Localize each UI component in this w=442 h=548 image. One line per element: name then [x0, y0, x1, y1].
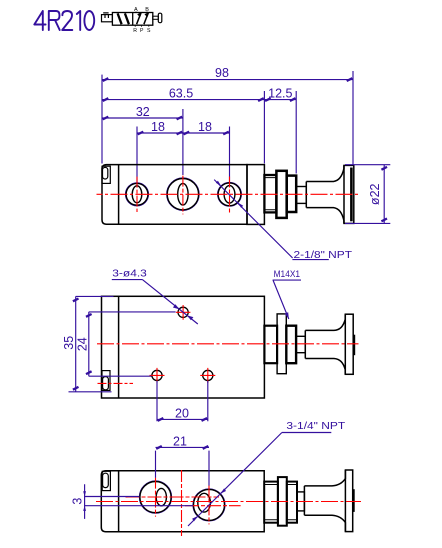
view2 stem — [296, 336, 305, 352]
view1 knob disc face — [350, 168, 353, 222]
view1 port2 circle — [167, 179, 198, 210]
valve symbol divider — [132, 13, 134, 26]
view2 lock nut — [277, 314, 286, 374]
view3 lock nut — [278, 477, 287, 526]
label 3-1/4 NPT — [188, 420, 346, 526]
view1 left tab — [102, 166, 110, 183]
svg-text:32: 32 — [136, 105, 150, 119]
svg-text:12.5: 12.5 — [268, 86, 292, 100]
view3 stem — [297, 492, 304, 511]
view3 body inner edge — [118, 471, 120, 532]
view1 port3 vertical centerline — [229, 177, 231, 213]
view1 port3 oval — [224, 186, 235, 203]
valve symbol push button stem — [153, 16, 159, 19]
svg-text:R: R — [133, 28, 137, 34]
view2 body inner edge — [118, 296, 120, 398]
view1 centerline — [97, 193, 360, 195]
view3 portB circle — [194, 489, 225, 520]
view2 slot centerline — [98, 382, 134, 384]
view2 valve body — [102, 296, 265, 398]
dimension 63.5 — [102, 86, 264, 101]
view2 slot housing — [102, 371, 110, 391]
view1 lock nut — [276, 171, 286, 218]
view1 port1 outer blue circle — [126, 183, 149, 206]
view1 knob disc — [344, 165, 354, 223]
svg-text:P: P — [140, 28, 144, 34]
view2 centerline — [97, 343, 359, 345]
view1 port2 vertical centerline — [182, 176, 184, 215]
svg-text:24: 24 — [76, 337, 90, 351]
svg-text:ø22: ø22 — [368, 183, 382, 205]
dimension 32 — [102, 105, 183, 120]
view2 top hole crosshair — [176, 305, 191, 320]
view3 thread section — [264, 482, 278, 523]
view1 port3 circle — [218, 183, 241, 206]
view3 thread lines — [264, 485, 278, 520]
view1 extension line x229.5 — [229, 127, 231, 185]
view2 lower hole right — [203, 370, 213, 380]
view3 portA row centerline — [126, 496, 220, 498]
view1 washer — [287, 176, 297, 212]
view1 port1 circle — [126, 183, 148, 205]
view1 extension line x102 — [101, 75, 103, 164]
valve symbol knob — [158, 13, 162, 23]
port ticks top — [136, 12, 147, 13]
dimension 12.5 — [264, 86, 296, 101]
svg-text:18: 18 — [198, 120, 212, 134]
view1 extension line x264.4 — [263, 91, 265, 164]
view1 port2 oval — [178, 183, 188, 205]
view1 extension line x183 — [182, 109, 184, 175]
valve symbol right cell flow arrows — [137, 13, 149, 24]
dimension 35 — [62, 296, 113, 391]
view2 thread section — [264, 326, 277, 364]
valve symbol left cell flow arrows — [118, 13, 129, 24]
view1 thread section — [264, 175, 276, 212]
svg-text:63.5: 63.5 — [169, 86, 193, 100]
view1 extension line x137 — [136, 127, 138, 186]
view2 knob tip — [353, 335, 355, 356]
label 3-dia4.3 — [112, 267, 198, 324]
view1 end cap — [247, 165, 264, 225]
view1 extension line x296.2 — [295, 91, 297, 174]
valve symbol main box — [112, 13, 152, 26]
view3 portA circle — [140, 482, 171, 513]
svg-text:21: 21 — [173, 434, 187, 448]
view2 top mounting hole — [178, 307, 188, 317]
dimension 21 — [156, 434, 210, 485]
svg-text:3-1/4" NPT: 3-1/4" NPT — [286, 420, 345, 432]
view3 portB row centerline — [185, 505, 241, 507]
view3 knob profile — [304, 470, 345, 532]
svg-text:3-ø4.3: 3-ø4.3 — [112, 267, 147, 279]
dimension 18 left — [137, 120, 183, 134]
view1 extension line x353 — [352, 71, 354, 165]
view2 slot capsule — [103, 377, 109, 390]
svg-text:18: 18 — [151, 120, 165, 134]
view2 lower hole left crosshair — [150, 368, 165, 383]
view3 portB oval — [198, 493, 211, 512]
view3 valve body — [101, 471, 264, 532]
view1 port1 vertical centerline — [136, 177, 138, 212]
label M14X1 — [273, 269, 301, 319]
svg-text:98: 98 — [215, 66, 229, 80]
view3 knob disc — [345, 470, 352, 532]
view1 stem — [296, 187, 306, 204]
view1 valve body — [102, 165, 247, 225]
svg-text:20: 20 — [175, 407, 189, 421]
svg-text:35: 35 — [62, 336, 76, 350]
view1 port2 outer blue circle — [167, 178, 199, 210]
view1 left tab slot — [103, 167, 108, 179]
view3 portA oval — [156, 488, 166, 505]
view1 port1 oval — [132, 186, 142, 203]
view3 vertical body centerline — [181, 470, 183, 536]
dimension 20 — [157, 381, 208, 421]
port ticks bottom — [135, 25, 149, 27]
svg-text:3: 3 — [71, 498, 85, 505]
valve symbol manual actuator — [102, 13, 113, 22]
leader 2-1/8 NPT — [214, 180, 329, 260]
svg-text:2-1/8" NPT: 2-1/8" NPT — [294, 249, 353, 261]
view3 tab slot — [103, 473, 109, 487]
dimension 98 — [102, 66, 353, 81]
view3 portA vertical centerline — [155, 478, 157, 517]
view3 portB vertical centerline — [208, 485, 210, 524]
dimension 24 — [76, 312, 176, 376]
view3 washer — [287, 482, 297, 523]
view2 washer — [286, 326, 296, 364]
view3 portB outer blue circle — [193, 489, 225, 521]
view3 centerline — [96, 501, 361, 503]
svg-text:S: S — [147, 28, 151, 34]
view1 thread lines — [264, 178, 276, 210]
view2 lower hole left — [152, 370, 162, 380]
view1 body inner edge — [118, 165, 120, 225]
dimension 3 — [71, 484, 193, 519]
view1 port3 outer blue circle — [218, 182, 242, 206]
view3 washer thread lines — [287, 485, 297, 520]
view3 tab housing — [102, 471, 110, 490]
title 4R210 — [34, 11, 94, 30]
view3 knob disc face — [352, 489, 355, 512]
dimension 18 right — [183, 120, 230, 134]
view2 lower hole right crosshair — [200, 368, 215, 383]
view3 portA outer blue circle — [139, 481, 171, 513]
view1 knob profile — [306, 165, 344, 223]
dimension dia22 — [345, 165, 390, 224]
svg-text:M14X1: M14X1 — [274, 269, 301, 280]
view2 knob disc — [345, 314, 353, 374]
view2 knob profile — [305, 314, 345, 374]
